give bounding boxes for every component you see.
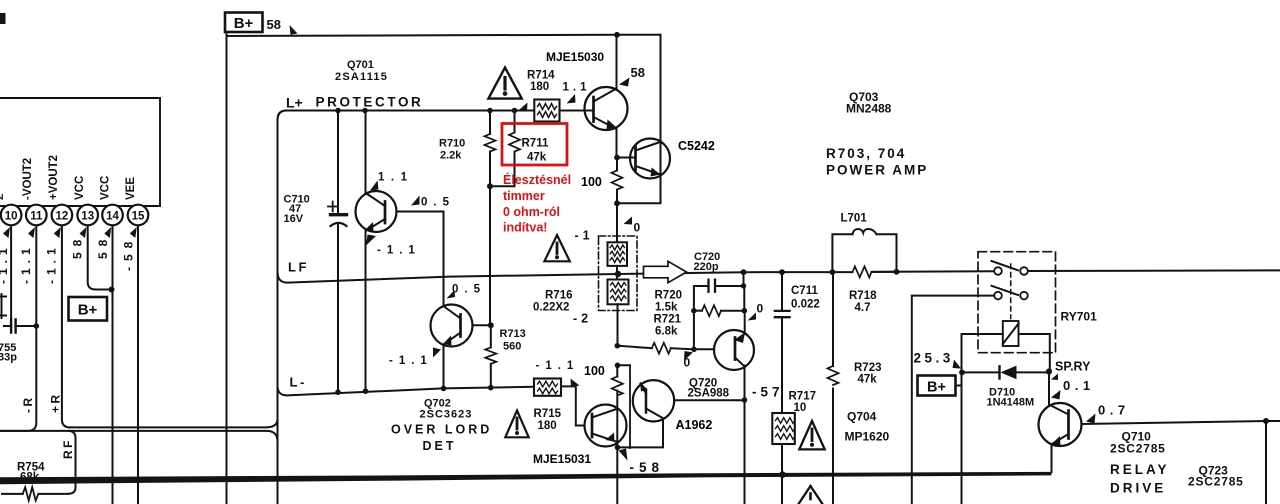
svg-text:14: 14	[106, 211, 119, 223]
resistor R721 6.8k	[617, 343, 694, 354]
svg-text:12: 12	[56, 211, 69, 223]
pin 13	[77, 205, 98, 226]
junction Q702 emitter on L-	[441, 386, 447, 392]
svg-text:L-: L-	[290, 375, 307, 390]
svg-text:R711: R711	[522, 138, 549, 150]
svg-text:-58: -58	[122, 236, 136, 271]
relay RY701 dashed box	[978, 252, 1056, 353]
svg-text:Q704: Q704	[847, 410, 877, 424]
value 0 with arrow at Q720 base	[684, 351, 694, 370]
wire base stub to C5242	[617, 157, 636, 159]
svg-text:R713: R713	[500, 328, 526, 340]
svg-text:R703, 704: R703, 704	[826, 146, 906, 161]
value 1.1 with arrow	[370, 172, 414, 191]
svg-text:0.5: 0.5	[421, 197, 455, 209]
junction R721 left on output line	[615, 343, 621, 349]
svg-text:58: 58	[267, 17, 281, 32]
svg-text:Q701: Q701	[347, 59, 374, 71]
junction Q720/A1962 right	[742, 397, 748, 403]
svg-text:2SC2785: 2SC2785	[1188, 475, 1244, 489]
transistor A1962 (2SA1962)	[618, 365, 745, 448]
junction diode cathode / Q710 collector	[1046, 368, 1052, 374]
svg-text:13: 13	[81, 211, 94, 223]
wire +R rail (line A) to right curve up into feedback bus	[70, 419, 278, 427]
svg-text:MN2488: MN2488	[846, 102, 892, 116]
svg-text:1.5k: 1.5k	[655, 302, 678, 314]
junction R721 right / Q720 base	[691, 347, 697, 353]
pin 12	[52, 205, 73, 226]
wire LF output rail	[278, 270, 1280, 282]
resistor R711 47k	[490, 111, 549, 187]
svg-text:100: 100	[584, 364, 605, 378]
wire pin14 down to bottom edge (B+ net)	[112, 226, 114, 504]
wire pin13 down jog right to pin14 wire	[88, 226, 112, 290]
junction diode anode	[959, 370, 965, 376]
value -1.1 with arrow	[366, 235, 421, 257]
junction R720 right	[742, 308, 748, 314]
svg-text:MJE15030: MJE15030	[546, 50, 604, 64]
svg-text:33p: 33p	[0, 352, 17, 364]
value 1.1 at R714 with arrow	[563, 82, 591, 104]
warning triangle T1	[488, 68, 521, 99]
fusible resistor R715 180 (boxed)	[534, 379, 562, 433]
svg-text:0: 0	[757, 302, 764, 316]
svg-text:2SC3623: 2SC3623	[420, 409, 473, 421]
svg-text:180: 180	[538, 420, 557, 432]
svg-text:VEE: VEE	[125, 177, 137, 200]
svg-text:B+: B+	[927, 380, 946, 396]
junction pin13/pin14	[109, 287, 115, 293]
pin 10	[1, 205, 22, 226]
warning triangle T5 partial bottom	[799, 486, 823, 504]
wire -57 line down to bottom	[744, 400, 746, 504]
value 0.5 with arrow at Q702	[447, 284, 487, 299]
svg-text:2SA1115: 2SA1115	[335, 71, 388, 83]
pin 11	[26, 205, 47, 226]
pin 13 arrow	[80, 227, 87, 238]
svg-text:0.22X2: 0.22X2	[533, 302, 569, 314]
svg-text:1N4148M: 1N4148M	[987, 397, 1035, 409]
junction A1962 collector bottom	[615, 445, 621, 451]
svg-text:R717: R717	[789, 391, 817, 403]
svg-text:+R: +R	[49, 392, 63, 413]
svg-text:POWER AMP: POWER AMP	[826, 163, 928, 178]
value -1.1 with arrow at Q702	[389, 348, 441, 368]
svg-text:0.7: 0.7	[1098, 403, 1130, 418]
pin 14	[102, 205, 123, 226]
svg-text:-1: -1	[575, 229, 594, 243]
junction C710 top	[335, 108, 341, 114]
svg-text:B+: B+	[234, 15, 254, 32]
resistor R720 1.5k	[694, 305, 744, 316]
wire pin12 down, curve right into +R rail	[62, 226, 70, 428]
wire relay coil right branch	[1019, 334, 1050, 372]
warning triangle T3	[505, 411, 528, 438]
wire protector rail	[278, 111, 594, 120]
value 0 with arrow above R716	[624, 217, 641, 235]
svg-text:560: 560	[503, 341, 521, 353]
capacitor C720	[694, 280, 744, 292]
wire output node down to R716	[616, 203, 618, 242]
svg-text:1.1: 1.1	[378, 172, 414, 184]
resistor 100 (emitter MJE15031)	[612, 377, 623, 448]
svg-text:R715: R715	[534, 408, 562, 420]
svg-text:SP.RY: SP.RY	[1055, 360, 1091, 374]
fusible resistor R716a (boxed striped)	[608, 242, 628, 266]
svg-text:RF: RF	[61, 438, 75, 459]
value -58 with arrow	[619, 449, 665, 476]
svg-text:100: 100	[581, 175, 602, 189]
value 0.7 with arrow	[1086, 403, 1130, 424]
red annotation box around R711	[502, 124, 567, 166]
pin 15	[128, 205, 149, 226]
fusible resistor R716b (boxed striped)	[608, 280, 629, 305]
pin 10 arrow	[3, 227, 10, 238]
junction R711 top	[512, 108, 518, 114]
wire pin10 down to C755	[10, 226, 12, 320]
junction C711 top on rail	[779, 269, 785, 275]
svg-text:VCC: VCC	[74, 176, 86, 200]
connector IC box U755 outline	[0, 98, 160, 206]
arrow at B+ rail	[290, 25, 298, 35]
svg-text:-58: -58	[630, 460, 665, 475]
svg-text:180: 180	[530, 81, 549, 93]
resistor R713 560	[485, 325, 525, 387]
wire pin11 down, curve left to edge (-R)	[0, 226, 36, 431]
svg-text:R716: R716	[545, 290, 573, 302]
transistor Q710 relay driver	[1039, 372, 1267, 473]
svg-text:10: 10	[794, 402, 807, 414]
wire between R716 boxes	[616, 266, 619, 346]
svg-text:-1.1: -1.1	[19, 243, 33, 284]
relay switch 2	[992, 286, 1028, 300]
junction C755 on pin11 wire	[34, 323, 40, 329]
value 0.5 with arrow	[411, 196, 455, 209]
fusible resistor R717 10 (boxed vertical)	[772, 391, 816, 445]
wire output line to bottom edge	[616, 447, 618, 504]
B+ label box right	[918, 376, 962, 396]
red annotation text	[503, 172, 571, 235]
svg-text:0.022: 0.022	[791, 299, 820, 311]
wire stub rail to C720	[743, 272, 745, 286]
relay coil	[1003, 321, 1019, 346]
transistor C5242	[630, 139, 670, 179]
junction C5242 base node	[614, 155, 620, 161]
svg-text:-VOUT2: -VOUT2	[22, 158, 34, 200]
arrow left of R714	[519, 103, 528, 111]
junction R710/R711 bottoms	[487, 183, 493, 189]
svg-text:-R: -R	[21, 395, 35, 413]
resistor 100 (emitter MJE15030)	[612, 158, 623, 204]
svg-text:RELAY: RELAY	[1110, 462, 1170, 477]
pin 15 arrow	[130, 227, 137, 238]
wire C720 right to R720 right	[743, 286, 745, 311]
big signal arrow on output rail	[644, 261, 687, 282]
svg-text:15: 15	[132, 211, 145, 223]
svg-text:R721: R721	[654, 314, 682, 326]
svg-text:B+: B+	[78, 302, 98, 319]
resistor R718 4.7 on rail	[849, 266, 877, 314]
transistor Q701a	[356, 111, 444, 392]
svg-text:10: 10	[5, 211, 18, 223]
value 0.1 with arrow	[1051, 378, 1095, 400]
resistor R710 2.2k	[439, 111, 496, 187]
junction output node on LF rail	[615, 271, 621, 277]
svg-text:LF: LF	[288, 260, 309, 275]
wire B+ top rail	[227, 32, 661, 36]
svg-text:1.1: 1.1	[563, 82, 591, 94]
value 25.3 with arrow	[914, 351, 962, 369]
svg-text:R714: R714	[527, 70, 555, 82]
junction MJE15030 collector on rail	[614, 32, 620, 38]
svg-text:PROTECTOR: PROTECTOR	[316, 95, 424, 110]
svg-text:Élesztésnél: Élesztésnél	[503, 172, 571, 187]
svg-text:indítva!: indítva!	[503, 221, 547, 235]
svg-text:L+: L+	[286, 95, 303, 111]
svg-text:C711: C711	[791, 285, 818, 297]
junction R723 top on rail	[830, 269, 836, 275]
wire base line to right edge and down	[1266, 421, 1280, 504]
left edge cut fragment upper	[0, 294, 6, 318]
svg-text:OVER LORD: OVER LORD	[391, 423, 492, 437]
svg-text:0.5: 0.5	[452, 284, 486, 296]
junction Q701a collector	[362, 108, 368, 114]
svg-text:2SC2785: 2SC2785	[1110, 442, 1166, 456]
junction C710 bottom on L-	[335, 389, 341, 395]
resistor R723 47k	[828, 272, 882, 504]
dash-dot box around R716	[599, 236, 638, 311]
svg-text:R720: R720	[655, 290, 683, 302]
warning triangle T4	[799, 421, 824, 449]
value 0 with arrow at Q720 collector	[748, 302, 764, 321]
svg-text:2: 2	[0, 194, 6, 200]
svg-text:R718: R718	[849, 290, 877, 302]
svg-text:25.3: 25.3	[914, 351, 954, 366]
junction A1962 base top	[615, 363, 621, 369]
wire top rail right loop down to output node	[617, 35, 661, 204]
svg-text:timmer: timmer	[503, 189, 545, 203]
capacitor C711 0.022	[775, 272, 820, 413]
svg-text:58: 58	[96, 234, 110, 259]
svg-text:DET: DET	[423, 439, 457, 453]
svg-text:220p: 220p	[694, 261, 719, 273]
transistor Q720 2SA988	[694, 311, 754, 400]
svg-text:+VOUT2: +VOUT2	[48, 155, 60, 200]
B+ label box lower-left	[69, 297, 108, 321]
svg-text:DRIVE: DRIVE	[1110, 481, 1166, 496]
wire divider down to Q702 base	[489, 186, 491, 325]
wire B+ branch down to bottom	[961, 372, 963, 504]
svg-text:L701: L701	[841, 213, 868, 225]
wire rail gap fill for R718	[832, 271, 896, 273]
transistor MJE15030	[585, 35, 628, 158]
svg-text:-2: -2	[573, 312, 592, 326]
svg-text:VCC: VCC	[100, 176, 112, 200]
svg-text:0.1: 0.1	[1063, 378, 1095, 393]
svg-text:47k: 47k	[858, 374, 878, 386]
wire C720/R720 left vertical	[693, 286, 695, 349]
relay switch 1	[992, 261, 1028, 275]
junction C5242 emitter node	[614, 200, 620, 206]
svg-text:16V: 16V	[284, 213, 304, 225]
wire R717 to bottom	[781, 444, 783, 504]
svg-text:R710: R710	[439, 138, 465, 150]
relay mechanical link dashed	[1010, 264, 1012, 319]
text SP.RY with arrow	[1051, 360, 1091, 381]
pin 12 arrow	[54, 227, 61, 238]
junction R710 top	[487, 108, 493, 114]
svg-text:0: 0	[634, 221, 641, 235]
wire feedback bus vertical x=277.5	[277, 120, 279, 504]
junction C720 right	[741, 283, 746, 288]
value 58 with arrow at MJE15030 collector	[619, 65, 645, 87]
B+ label box top	[225, 13, 263, 33]
pin 11 arrow	[28, 227, 35, 238]
svg-text:RY701: RY701	[1061, 310, 1098, 324]
svg-text:R723: R723	[854, 362, 882, 374]
svg-text:4.7: 4.7	[855, 302, 871, 314]
junction R720 left	[691, 308, 697, 314]
diode D710 1N4148M	[962, 366, 1050, 409]
capacitor C755	[0, 320, 36, 364]
svg-text:2SA988: 2SA988	[688, 388, 730, 400]
wire B+ vertical long down to bottom	[226, 36, 228, 504]
junction L701 right on rail	[894, 269, 900, 275]
junction R713 bottom on L-	[488, 385, 494, 391]
transistor MJE15031	[585, 405, 627, 447]
svg-text:6.8k: 6.8k	[655, 326, 678, 338]
svg-text:2.2k: 2.2k	[440, 150, 462, 162]
svg-text:-1.1: -1.1	[377, 245, 421, 257]
svg-text:47k: 47k	[527, 152, 547, 164]
junction Q702 base / R713	[488, 322, 494, 328]
wire RF rail (line B) across to right, curving down into bus	[0, 431, 278, 442]
svg-text:MJE15031: MJE15031	[533, 452, 591, 466]
svg-text:-1.1: -1.1	[536, 360, 580, 372]
svg-text:58: 58	[631, 65, 645, 80]
svg-text:-57: -57	[752, 385, 784, 400]
warning triangle T2	[544, 235, 569, 261]
wire output to 100 ohm lower	[616, 365, 618, 376]
ground bus thick rail	[0, 472, 1052, 484]
junction on ground rail	[779, 471, 786, 478]
svg-text:-1.1: -1.1	[45, 243, 59, 284]
wire L- rail	[278, 386, 585, 425]
junction Q710 base line right	[1263, 418, 1269, 424]
svg-text:58: 58	[71, 234, 85, 259]
transistor Q702 2SC3623	[431, 212, 492, 389]
pin 14 arrow	[104, 227, 111, 238]
capacitor C710 47uF 16V	[284, 111, 347, 393]
top-left corner fragment	[0, 13, 6, 24]
svg-text:0 ohm-ról: 0 ohm-ról	[503, 205, 560, 219]
resistor R754 68k	[2, 462, 68, 501]
svg-text:11: 11	[30, 211, 43, 223]
svg-text:A1962: A1962	[676, 418, 713, 432]
junction Q701a emitter on L-	[363, 388, 369, 394]
junction C720 right top	[741, 269, 747, 275]
inductor L701	[832, 213, 896, 273]
wire relay coil left branch	[962, 334, 1003, 372]
wire speaker return line	[912, 296, 994, 504]
wire RF branch down to R754	[68, 431, 76, 494]
svg-text:-1.1: -1.1	[0, 243, 10, 284]
fusible resistor R714 180 (boxed)	[527, 70, 560, 122]
wire pin15 down to bottom edge (-58 net)	[137, 226, 139, 504]
value -1.1 with arrow at R715	[536, 360, 580, 387]
svg-text:-1.1: -1.1	[389, 355, 433, 367]
svg-text:MP1620: MP1620	[845, 430, 890, 444]
svg-text:C5242: C5242	[678, 139, 715, 153]
